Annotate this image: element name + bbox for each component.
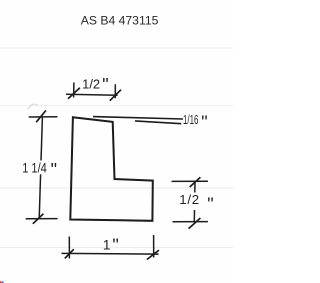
svg-text:1 1/4: 1 1/4 <box>22 160 47 175</box>
svg-text:": " <box>112 236 118 256</box>
svg-text:1: 1 <box>103 236 111 252</box>
svg-text:": " <box>51 160 57 180</box>
svg-text:": " <box>207 194 213 214</box>
svg-text:": " <box>201 112 207 132</box>
svg-text:1/16: 1/16 <box>183 113 198 127</box>
svg-text:1/2: 1/2 <box>179 192 200 207</box>
svg-text:": " <box>102 75 108 95</box>
svg-text:AS B4 473115: AS B4 473115 <box>81 14 159 28</box>
svg-text:1/2: 1/2 <box>82 77 100 92</box>
